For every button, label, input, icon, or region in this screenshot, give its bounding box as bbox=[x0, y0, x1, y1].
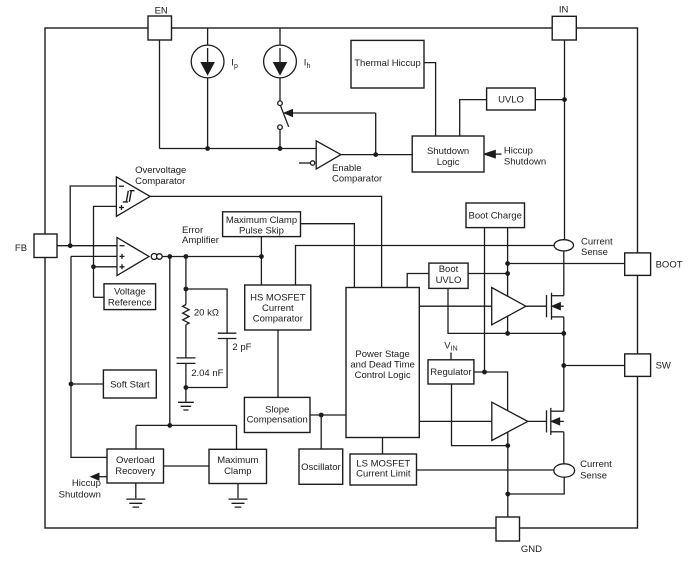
wire LS driver bottom stub bbox=[507, 432, 509, 445]
ground below overload recovery bbox=[126, 483, 145, 507]
wire HS driver output to gate bbox=[526, 305, 547, 307]
svg-text:Sense: Sense bbox=[580, 470, 607, 481]
block Soft Start bbox=[103, 370, 156, 398]
svg-text:Compensation: Compensation bbox=[247, 415, 308, 426]
wire Ip to bus bbox=[207, 78, 209, 149]
current sense element (low side) bbox=[554, 464, 575, 477]
wire max clamp pulse skip to power stage bbox=[301, 224, 355, 288]
pin SW bbox=[625, 354, 651, 377]
svg-text:Voltage: Voltage bbox=[114, 287, 146, 298]
svg-text:Current Limit: Current Limit bbox=[356, 469, 411, 480]
wire LS MOSFET current limit to current sense bbox=[417, 469, 554, 471]
wire hiccup shutdown output arrow bbox=[91, 474, 107, 480]
svg-text:Ip: Ip bbox=[231, 58, 238, 71]
wire error amp output down to overload/max clamp rail bbox=[169, 257, 171, 426]
svg-text:GND: GND bbox=[521, 544, 542, 555]
block Maximum Clamp bbox=[209, 449, 267, 483]
wire HS driver bottom to SW rail bbox=[507, 316, 509, 333]
svg-text:Sense: Sense bbox=[581, 247, 608, 258]
wire boot UVLO to power stage bbox=[407, 274, 429, 288]
wire Ip top stub bbox=[207, 28, 209, 45]
svg-text:HS MOSFET: HS MOSFET bbox=[250, 292, 306, 303]
wire current sense bottom return to GND node bbox=[508, 477, 564, 494]
node junction dots bbox=[68, 97, 567, 496]
svg-text:Current: Current bbox=[581, 236, 613, 247]
svg-text:Control Logic: Control Logic bbox=[355, 370, 411, 381]
wire voltage reference box link bbox=[94, 296, 105, 298]
svg-text:Recovery: Recovery bbox=[115, 466, 155, 477]
wire Ih to switch bbox=[279, 78, 281, 101]
block Overload Recovery bbox=[107, 449, 164, 483]
block Slope Compensation bbox=[244, 397, 310, 432]
svg-text:Reference: Reference bbox=[108, 297, 152, 308]
wire soft start rail (long vertical) bbox=[71, 256, 107, 457]
svg-text:Overload: Overload bbox=[116, 455, 155, 466]
wire max clamp pulse skip down through EA line to HS comparator bbox=[260, 237, 262, 285]
svg-text:Overvoltage: Overvoltage bbox=[135, 165, 186, 176]
wire power stage to LS MOSFET current limit bbox=[382, 438, 384, 455]
wire switch to bus bbox=[279, 130, 281, 149]
wire Ih top stub bbox=[279, 28, 281, 45]
svg-text:Error: Error bbox=[182, 225, 203, 236]
block Power Stage and Dead Time Control Logic bbox=[346, 288, 419, 438]
svg-text:Soft Start: Soft Start bbox=[110, 379, 150, 390]
svg-text:Current: Current bbox=[262, 303, 294, 314]
wire current sense top to HS MOSFET drain bbox=[563, 251, 565, 296]
wire LS source to current sense bottom bbox=[563, 432, 565, 464]
block Maximum Clamp Pulse Skip bbox=[223, 212, 301, 237]
wire SW rail from boot UVLO bottom bbox=[448, 288, 564, 333]
wire hiccup shutdown input arrow bbox=[484, 151, 501, 158]
wire compensation branch bbox=[185, 257, 187, 290]
wire overvoltage comparator output to power stage bbox=[150, 196, 382, 287]
wire enable comparator output to shutdown logic bbox=[341, 154, 412, 156]
wire error amplifier output bbox=[162, 256, 261, 258]
svg-text:BOOT: BOOT bbox=[656, 260, 683, 271]
wire GND vertical bbox=[507, 446, 509, 517]
pin IN bbox=[552, 16, 576, 40]
ground below compensation network bbox=[178, 388, 194, 411]
svg-text:VIN: VIN bbox=[444, 341, 457, 353]
svg-text:Ih: Ih bbox=[304, 58, 311, 71]
capacitor 2.04 nF bbox=[177, 358, 196, 388]
wire boot UVLO to boot node bbox=[468, 273, 508, 275]
wire enable bus bbox=[160, 148, 317, 150]
op-amp error amplifier bbox=[117, 238, 162, 276]
pin EN bbox=[148, 16, 172, 40]
wire thermal hiccup to shutdown logic bbox=[424, 63, 436, 136]
svg-text:Logic: Logic bbox=[437, 157, 460, 168]
wire voltage reference rail bbox=[94, 206, 117, 297]
op-amp overvoltage comparator bbox=[116, 177, 150, 216]
wire power stage to LS driver input bbox=[419, 420, 492, 422]
op-amp enable comparator bbox=[299, 141, 341, 169]
current source Ip bbox=[191, 45, 224, 78]
block Boot Charge bbox=[466, 203, 525, 228]
wire slope compensation to power stage / oscillator bbox=[310, 415, 346, 449]
svg-text:Shutdown: Shutdown bbox=[504, 156, 546, 167]
wire EN pin to enable bus bbox=[159, 40, 161, 149]
svg-text:Shutdown: Shutdown bbox=[427, 146, 469, 157]
svg-text:Comparator: Comparator bbox=[332, 173, 382, 184]
block LS MOSFET Current Limit bbox=[350, 454, 417, 485]
svg-text:2.04 nF: 2.04 nF bbox=[191, 368, 223, 379]
pin FB bbox=[34, 234, 57, 258]
svg-text:Boot: Boot bbox=[439, 264, 459, 275]
op-amp HS gate driver U1 bbox=[492, 288, 526, 325]
pin GND bbox=[496, 517, 520, 541]
wire overload recovery / maximum clamp top rail bbox=[136, 425, 237, 449]
svg-text:and Dead Time: and Dead Time bbox=[350, 359, 414, 370]
svg-text:SW: SW bbox=[656, 361, 671, 372]
wire boot charge input (left vertical) bbox=[484, 228, 486, 372]
wire soft start to rail bbox=[71, 383, 103, 385]
svg-text:Boot Charge: Boot Charge bbox=[469, 211, 522, 222]
wire VIN stub bbox=[450, 353, 452, 360]
wire boot charge output (right) to HS driver top bbox=[507, 228, 509, 297]
svg-text:UVLO: UVLO bbox=[436, 275, 462, 286]
wire FB to overvoltage comparator inverting input bbox=[70, 186, 116, 246]
wire LS driver output to gate bbox=[528, 420, 547, 422]
svg-text:Maximum: Maximum bbox=[217, 455, 258, 466]
wire HS MOSFET comparator to slope compensation bbox=[277, 330, 279, 397]
block Voltage Reference bbox=[104, 284, 156, 310]
svg-text:Power Stage: Power Stage bbox=[355, 349, 409, 360]
svg-text:Comparator: Comparator bbox=[253, 314, 303, 325]
block Regulator bbox=[428, 360, 474, 384]
wire regulator output to boot charge and LS driver bbox=[474, 372, 508, 411]
svg-text:Comparator: Comparator bbox=[135, 176, 185, 187]
wire UVLO to IN rail bbox=[535, 99, 564, 101]
svg-text:Maximum Clamp: Maximum Clamp bbox=[226, 215, 297, 226]
svg-text:FB: FB bbox=[15, 243, 27, 254]
block Oscillator bbox=[299, 449, 343, 484]
svg-text:2 pF: 2 pF bbox=[232, 342, 251, 353]
transistor HS MOSFET bbox=[547, 293, 564, 320]
block Thermal Hiccup bbox=[351, 40, 424, 88]
current sense element (high side) bbox=[554, 240, 573, 251]
wire voltage reference to error amplifier plus input bbox=[94, 266, 118, 268]
wire power stage to HS driver input bbox=[419, 305, 491, 307]
wire HS source / SW node / LS drain vertical bbox=[563, 317, 565, 411]
wire boot node to BOOT pin bbox=[508, 263, 625, 265]
block Boot UVLO bbox=[429, 263, 468, 288]
svg-text:Regulator: Regulator bbox=[430, 367, 471, 378]
block Shutdown Logic bbox=[412, 136, 484, 172]
op-amp LS gate driver U2 bbox=[492, 402, 528, 440]
ground below maximum clamp bbox=[229, 484, 248, 508]
capacitor 2 pF bbox=[186, 333, 237, 387]
svg-text:UVLO: UVLO bbox=[498, 94, 524, 105]
svg-text:Amplifier: Amplifier bbox=[182, 235, 219, 246]
wire regulator bottom to LS driver bottom rail bbox=[452, 384, 508, 446]
svg-text:IN: IN bbox=[559, 5, 569, 16]
resistor 20 kOhm bbox=[183, 289, 189, 358]
device outline frame bbox=[45, 28, 638, 528]
wire error amplifier middle input from soft start rail bbox=[71, 255, 117, 257]
wire IN rail down to current sense bbox=[564, 40, 566, 240]
wire HS comparator to current sense bbox=[296, 246, 555, 286]
svg-text:Hiccup: Hiccup bbox=[504, 145, 533, 156]
svg-text:Enable: Enable bbox=[332, 163, 362, 174]
transistor LS MOSFET bbox=[547, 408, 564, 435]
switch (hiccup current select) bbox=[278, 101, 289, 130]
svg-text:20 kΩ: 20 kΩ bbox=[194, 308, 219, 319]
svg-text:Clamp: Clamp bbox=[224, 466, 251, 477]
wire SW node to SW pin bbox=[564, 365, 625, 367]
svg-text:Thermal Hiccup: Thermal Hiccup bbox=[354, 58, 421, 69]
wire FB to error amplifier inverting input bbox=[57, 245, 117, 247]
current source Ih bbox=[264, 45, 297, 78]
svg-text:Oscillator: Oscillator bbox=[301, 462, 341, 473]
svg-text:Hiccup: Hiccup bbox=[72, 478, 101, 489]
svg-text:Pulse Skip: Pulse Skip bbox=[239, 226, 284, 237]
svg-text:EN: EN bbox=[155, 6, 168, 17]
svg-text:Shutdown: Shutdown bbox=[59, 489, 101, 500]
block UVLO bbox=[487, 88, 536, 110]
wire overload recovery to maximum clamp bbox=[164, 465, 210, 467]
block HS MOSFET Current Comparator bbox=[245, 285, 311, 330]
wire UVLO to shutdown logic bbox=[460, 100, 487, 136]
wire 2 pF branch bbox=[186, 289, 227, 333]
svg-text:Current: Current bbox=[580, 459, 612, 470]
wire switch control arrow bbox=[285, 110, 376, 155]
pin BOOT bbox=[625, 253, 651, 276]
